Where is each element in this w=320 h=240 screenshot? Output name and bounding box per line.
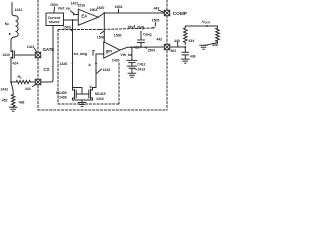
- svg-text:442: 442: [156, 38, 162, 42]
- pin CS: [35, 79, 40, 84]
- leader 1503: [71, 29, 73, 31]
- dashed box controller outer left edge: [37, 0, 39, 110]
- svg-text:1421: 1421: [27, 45, 35, 49]
- leader 1508: [101, 31, 104, 33]
- svg-text:1508: 1508: [97, 35, 105, 39]
- current mirror transistor 1405: [73, 88, 77, 101]
- svg-text:462: 462: [170, 49, 176, 53]
- ground mirror: [78, 103, 86, 107]
- resistor 434: [184, 26, 188, 45]
- svg-text:Vref_ea: Vref_ea: [58, 6, 71, 10]
- svg-text:1439: 1439: [112, 59, 120, 63]
- svg-text:1504: 1504: [147, 48, 155, 52]
- svg-text:1410: 1410: [2, 53, 10, 57]
- capacitor 436: [182, 47, 189, 59]
- leader 1505: [154, 23, 156, 27]
- wire COMP node down to gm input: [103, 13, 105, 44]
- svg-text:424: 424: [13, 62, 19, 66]
- leader 443: [159, 10, 164, 12]
- svg-text:IP: IP: [90, 85, 93, 90]
- svg-text:1505: 1505: [152, 19, 160, 23]
- current source block 1504: [46, 13, 64, 26]
- svg-text:1413: 1413: [137, 67, 145, 71]
- leader 1432b: [97, 69, 102, 74]
- leader 1413: [135, 68, 137, 71]
- node junction dot cap avg: [140, 46, 142, 48]
- node dot 1426: [72, 62, 74, 64]
- node junction dot Vout: [206, 25, 208, 27]
- svg-text:1406: 1406: [59, 96, 67, 100]
- svg-text:M1415: M1415: [95, 92, 106, 96]
- wire mirror drain to Ip line: [93, 87, 97, 89]
- node junction dot 1503: [72, 19, 74, 21]
- node dot on Ip line: [95, 70, 97, 72]
- svg-text:VOUT: VOUT: [202, 19, 211, 25]
- svg-text:1504: 1504: [50, 3, 58, 7]
- svg-text:RS: RS: [18, 75, 23, 80]
- node 1432 junction dot: [10, 81, 12, 83]
- node junction dot 1520: [103, 12, 105, 14]
- leader 1504: [53, 7, 56, 13]
- node junction dot cap chain: [131, 46, 133, 48]
- ground: [9, 107, 17, 111]
- wire load to ground: [204, 43, 218, 46]
- svg-text:438: 438: [19, 101, 25, 105]
- svg-text:COMP: COMP: [173, 11, 188, 17]
- wire current source to EA input: [64, 19, 79, 21]
- svg-text:418: 418: [134, 46, 140, 50]
- ground comp network: [182, 59, 190, 63]
- node polarity dot: [9, 33, 11, 35]
- leader 1421: [35, 49, 37, 52]
- leader 444: [33, 85, 36, 87]
- svg-text:Current: Current: [48, 16, 61, 20]
- leader 1528: [118, 9, 120, 13]
- svg-text:IP: IP: [89, 63, 92, 68]
- svg-text:gm: gm: [105, 48, 112, 53]
- wire primary to drain: [11, 37, 16, 49]
- transistor M power MOSFET 1410: [11, 49, 35, 60]
- svg-text:NP: NP: [5, 22, 10, 27]
- resistor 438 lower sense divider: [12, 95, 15, 107]
- arrowhead Ip direction: [95, 63, 97, 66]
- wire Ip sense line: [95, 54, 97, 88]
- wire mirror gates: [76, 93, 89, 95]
- resistor 438 load: [216, 26, 220, 43]
- resistor Rs: [11, 80, 35, 83]
- wire EA plus input stub: [76, 14, 79, 16]
- leader 1504b: [145, 47, 147, 48]
- wire rail to ground: [81, 100, 83, 103]
- wire replica current down: [72, 20, 74, 88]
- svg-text:444: 444: [25, 87, 31, 91]
- ground load: [200, 45, 208, 49]
- svg-text:1528: 1528: [115, 5, 123, 9]
- pin GATE: [35, 52, 40, 57]
- pin 1442: [164, 44, 169, 49]
- svg-text:C412: C412: [137, 62, 145, 66]
- wire mirror source rail: [73, 99, 93, 101]
- svg-text:1520: 1520: [97, 6, 105, 10]
- svg-text:1412: 1412: [15, 8, 23, 12]
- wire resistor to ground: [12, 106, 14, 109]
- current mirror transistor 1415: [89, 88, 93, 101]
- wire gm output: [120, 47, 164, 50]
- svg-text:Vref_avg: Vref_avg: [128, 25, 145, 30]
- svg-text:1426: 1426: [60, 62, 68, 66]
- svg-text:CS: CS: [43, 67, 49, 72]
- svg-text:438: 438: [212, 43, 218, 47]
- svg-text:443: 443: [154, 7, 160, 11]
- svg-text:GATE: GATE: [43, 47, 55, 52]
- svg-text:1432: 1432: [0, 88, 8, 92]
- wire Vref_ea arrow: [71, 11, 75, 14]
- inductor Np primary winding 1412: [16, 16, 19, 37]
- node junction dot comp network: [184, 46, 186, 48]
- svg-text:434: 434: [188, 39, 194, 43]
- svg-text:1416: 1416: [96, 97, 104, 101]
- svg-text:EA: EA: [81, 14, 87, 19]
- dashed box controller outer right edge: [166, 0, 168, 110]
- leader 440: [177, 42, 179, 46]
- svg-text:452: 452: [2, 99, 8, 103]
- svg-text:Vth_ba: Vth_ba: [120, 53, 133, 57]
- bracket Ics_lavg: [93, 51, 94, 56]
- svg-text:source: source: [49, 20, 60, 24]
- svg-text:M1405: M1405: [56, 91, 67, 95]
- svg-text:1516: 1516: [77, 4, 85, 8]
- wire pin to compensation node: [170, 46, 186, 48]
- svg-text:1530: 1530: [114, 34, 122, 38]
- svg-text:1503: 1503: [63, 26, 71, 30]
- wire CS pin to current source: [41, 26, 53, 83]
- svg-text:1432: 1432: [103, 68, 111, 72]
- svg-text:Cavg: Cavg: [143, 32, 151, 36]
- svg-text:440: 440: [174, 39, 180, 43]
- wire EA output to COMP: [98, 13, 164, 17]
- wire node to lower resistor: [11, 82, 13, 95]
- wire Vout rail: [185, 25, 217, 27]
- pin COMP: [164, 10, 169, 15]
- capacitor chain Cth to ground: [127, 47, 137, 73]
- op-amp gm 1508: [104, 42, 120, 58]
- wire source down: [10, 60, 12, 82]
- svg-text:Ics_lavg: Ics_lavg: [74, 52, 88, 56]
- ground cap chain: [128, 73, 136, 77]
- wire gm minus input stub: [96, 53, 104, 55]
- wire primary top lead: [12, 3, 16, 16]
- wire diode connection: [73, 88, 83, 95]
- dashed box controller outer bottom edge: [38, 109, 167, 111]
- svg-text:436: 436: [190, 54, 196, 58]
- capacitor Cavg: [138, 31, 145, 47]
- op-amp EA: [78, 9, 98, 25]
- dashed box sense block: [58, 30, 119, 105]
- dashed leader Vref_avg: [100, 28, 154, 30]
